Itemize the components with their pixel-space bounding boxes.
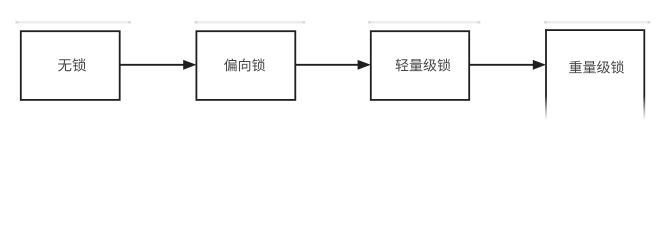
ghost line above box 4 — [544, 21, 650, 23]
state box 3: 轻量级锁 — [371, 31, 469, 100]
label 重量级锁 — [569, 61, 624, 74]
arrow 1: 无锁 → 偏向锁 — [120, 60, 197, 70]
label 无锁 — [58, 58, 86, 71]
ghost line above box 1 (faded edge of cropped shape above) — [16, 21, 131, 23]
state box 4: 重量级锁 (bottom fades out of crop) — [545, 29, 645, 120]
arrow 3: 轻量级锁 → 重量级锁 — [469, 60, 546, 70]
ghost line above box 2 — [195, 21, 306, 23]
label 偏向锁 — [224, 58, 265, 71]
ghost line above box 3 — [368, 21, 480, 23]
label 轻量级锁 — [396, 58, 451, 71]
arrow 2: 偏向锁 → 轻量级锁 — [295, 60, 371, 70]
state box 2: 偏向锁 — [196, 31, 295, 100]
state box 1: 无锁 — [21, 31, 120, 100]
